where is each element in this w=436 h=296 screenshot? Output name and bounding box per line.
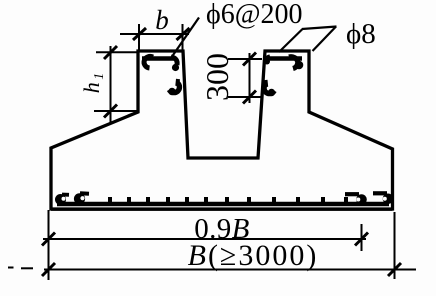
svg-text:h1: h1 (79, 73, 107, 94)
dimension B: left tick (42, 263, 55, 276)
dimension B: right tick (388, 263, 401, 276)
leader line B to phi8 (right rib right) (313, 27, 337, 52)
bottom rebar right hook 2 (373, 191, 387, 195)
dimension 300: bottom extension (228, 96, 261, 98)
dimension B: line (44, 269, 416, 271)
dimension b: right tick (177, 28, 190, 40)
dimension 300: bottom tick (243, 91, 256, 104)
svg-text:300: 300 (199, 53, 235, 101)
dimension 0.9B: left extension (48, 210, 50, 280)
dimension h1: bottom extension (94, 110, 137, 112)
dimension 300: line (249, 53, 251, 103)
dimension h1: top tick (104, 46, 117, 59)
bottom rebar right hook 1 (345, 192, 359, 196)
bottom slab edge (thicker base line) (51, 209, 393, 211)
dimension h1: bottom tick (104, 105, 117, 118)
concrete section outline (51, 51, 393, 209)
left rib top bar left hook (144, 56, 153, 68)
right rib lower hook (264, 80, 269, 87)
bottom rebar left hook 2 (74, 193, 85, 204)
dimension 0.9B: line (43, 238, 366, 240)
leader line to phi6@200 (left rib) (171, 18, 199, 59)
left rib top bar (142, 56, 175, 61)
svg-text:ϕ6@200: ϕ6@200 (206, 0, 303, 30)
dimension b: left extension (138, 24, 140, 51)
right rib top bar left hook (265, 57, 270, 64)
left rib lower hook (175, 79, 180, 86)
dimension b: left tick (133, 28, 146, 40)
dimension h1: top extension (96, 51, 138, 53)
svg-text:B(≥3000): B(≥3000) (188, 239, 319, 272)
right rib top bar (268, 56, 303, 61)
dimension b: right extension (182, 24, 184, 51)
dimension h1: line (110, 46, 112, 123)
bottom rebar left hook 1 (55, 194, 66, 205)
bottom rebar main bar (57, 202, 389, 207)
left rib top bar right hook (171, 57, 177, 65)
dimension 0.9B: left tick (42, 233, 55, 246)
dimension 300: top tick (243, 53, 256, 66)
svg-text:ϕ8: ϕ8 (346, 18, 376, 50)
dimension B: right extension (394, 212, 396, 279)
bottom rebar tie dots (110, 197, 346, 202)
dimension B: far-left dash (8, 267, 14, 269)
right rib top bar right hook (289, 57, 298, 69)
leader horizontal to phi8 label (302, 27, 337, 30)
leader line A to phi8 (right rib left) (279, 29, 303, 52)
dimension 0.9B: right tick (355, 233, 368, 246)
dimension b: line (120, 33, 189, 35)
svg-text:b: b (155, 5, 169, 35)
dimension B: left overshoot dash (21, 267, 33, 269)
dimension 0.9B: right extension (361, 224, 363, 251)
dimension 300: top extension (228, 58, 262, 60)
